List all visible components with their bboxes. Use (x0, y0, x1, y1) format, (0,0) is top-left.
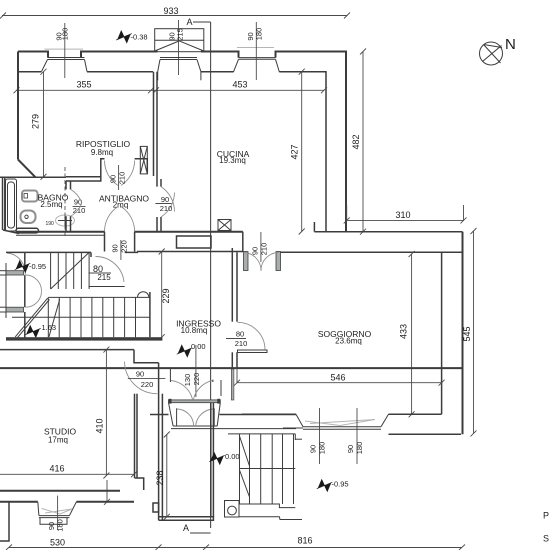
wall top inner face (18, 72, 326, 232)
wall band cucina south to soggiorno north (137, 222, 464, 252)
pill bagno south end (16, 228, 39, 233)
svg-text:-0.38: -0.38 (131, 33, 148, 42)
service stairs right of landing (228, 434, 302, 520)
wall west ripostiglio (17, 52, 19, 160)
wall ripostiglio south / antibagno north (36, 159, 148, 181)
building SW corner (0, 502, 9, 541)
wall diagonal to bagno bay (18, 160, 36, 178)
studio window bottom (38, 502, 77, 525)
dim 545 (471, 228, 477, 436)
svg-text:816: 816 (297, 536, 312, 546)
wall ripostiglio east (154, 72, 158, 179)
dim 229 (159, 249, 165, 341)
landing west wall (159, 363, 163, 521)
svg-text:2.5mq: 2.5mq (40, 200, 62, 209)
shaft with X cucina (218, 220, 231, 231)
svg-text:P: P (543, 511, 549, 521)
svg-text:0.00: 0.00 (225, 452, 240, 461)
svg-text:0.00: 0.00 (191, 342, 206, 351)
french door balcony (cucina) (158, 58, 201, 81)
stairwell right wall (149, 292, 151, 337)
sink bagno (22, 191, 38, 202)
main stair flight (12, 292, 150, 339)
svg-text:90: 90 (346, 445, 355, 453)
hatched pier 1 (6, 271, 24, 275)
svg-text:210: 210 (118, 172, 127, 185)
svg-text:1.63: 1.63 (42, 323, 57, 332)
spark 0.00 ingresso (178, 344, 192, 358)
landing east wall (211, 403, 214, 517)
dim 410 (103, 347, 110, 505)
dims 90/180 soggiorno windows (319, 408, 321, 464)
svg-text:90: 90 (251, 247, 260, 255)
svg-text:90: 90 (111, 244, 120, 252)
door soggiorno-ingresso leaf (238, 350, 268, 353)
svg-text:90: 90 (309, 445, 318, 453)
svg-text:180: 180 (355, 442, 364, 455)
door cucina-soggiorno jambs gray (244, 252, 249, 271)
svg-text:453: 453 (232, 80, 247, 90)
bathtub (6, 179, 17, 231)
stair hall top wall (6, 232, 138, 257)
door arcs hall west (7, 253, 42, 307)
svg-text:220: 220 (192, 373, 201, 386)
wall ingresso east (232, 248, 237, 368)
svg-text:190: 190 (46, 221, 55, 227)
wall soggiorno east (441, 252, 443, 414)
wall bagno east (66, 181, 71, 232)
dim 80/210 soggiorno door (226, 338, 246, 340)
column box with circle (225, 501, 240, 518)
svg-text:427: 427 (290, 144, 300, 159)
entrance porch trapezoid (169, 403, 297, 429)
wall step at 134 (134, 350, 159, 363)
spark -0.95 bottom (318, 479, 332, 493)
dashed line bagno (64, 167, 66, 237)
svg-text:545: 545 (462, 326, 472, 341)
antibagno east door arcs (161, 187, 175, 217)
svg-text:355: 355 (76, 80, 91, 90)
long wall y368 (0, 367, 463, 369)
svg-text:180: 180 (61, 28, 70, 41)
balcony box top (155, 29, 204, 52)
svg-text:130: 130 (183, 374, 192, 387)
svg-text:90: 90 (109, 175, 118, 183)
svg-text:416: 416 (49, 464, 64, 474)
dim 279 vertical (41, 69, 47, 180)
wall bagno/antibagno south (16, 231, 243, 233)
svg-text:546: 546 (330, 373, 345, 383)
spark 0.00 landing (210, 452, 224, 466)
studio south wall (0, 491, 134, 502)
left edge stubs (0, 271, 6, 312)
dim 546 (234, 368, 445, 386)
svg-text:279: 279 (31, 114, 41, 129)
north compass (480, 42, 503, 65)
bidet bagno (21, 211, 36, 224)
door studio corridor arc (125, 362, 158, 394)
dim 90/210 antibagno east door (155, 203, 171, 205)
svg-text:19.3mq: 19.3mq (219, 156, 246, 165)
dim 90/210 bagno door (73, 206, 86, 208)
entrance outer leaves (177, 408, 215, 426)
svg-text:210: 210 (260, 243, 269, 256)
dim 90/180 window W3 (255, 22, 257, 80)
wall antibagno east piers (157, 179, 161, 232)
svg-text:23.6mq: 23.6mq (335, 337, 362, 346)
svg-text:229: 229 (161, 288, 171, 303)
antibagno north door arcs (105, 161, 135, 186)
stair hall left wall (5, 263, 7, 318)
dim 90/220 rotated hall door (120, 240, 122, 260)
svg-text:-0.95: -0.95 (29, 262, 46, 271)
stair hall west wall piers (24, 252, 26, 338)
svg-text:482: 482 (351, 134, 361, 149)
window W3 cucina top (233, 48, 279, 73)
bagno bay west wall (0, 177, 36, 233)
window W1 ripostiglio top (42, 49, 88, 71)
antibagno south door arcs (104, 207, 134, 232)
hatched pier 2 (6, 307, 24, 312)
svg-text:90: 90 (136, 370, 144, 379)
dim 933 top (0, 13, 350, 19)
spark -0.95 stair hall (16, 260, 30, 274)
door cucina-soggiorno arcs (244, 253, 279, 272)
wall band below stairs (6, 337, 162, 340)
svg-text:530: 530 (50, 538, 65, 548)
wall y349.6 studio top (0, 349, 134, 351)
atrium south edge (150, 414, 296, 416)
svg-text:17mq: 17mq (48, 436, 68, 445)
dim 90/210 cucina-soggiorno door (260, 232, 262, 262)
svg-text:180: 180 (255, 28, 264, 41)
svg-text:A: A (183, 523, 189, 533)
dim 90/220 studio corridor door (128, 377, 166, 379)
dim 90/215 balcony door (178, 20, 180, 75)
dim 310 (344, 205, 467, 223)
door 80/215 hall arc (96, 256, 125, 282)
dim 90/180 window W1 (64, 23, 66, 78)
svg-text:210: 210 (160, 204, 173, 213)
entrance threshold (169, 400, 221, 403)
svg-text:410: 410 (95, 418, 105, 433)
door soggiorno-ingresso arc (238, 322, 266, 350)
svg-text:310: 310 (395, 210, 410, 220)
spark -0.38 (117, 30, 131, 44)
dim 130/220 entrance door (195, 345, 197, 397)
svg-text:90: 90 (161, 195, 169, 204)
landing south wall (159, 517, 214, 520)
svg-text:10.8mq: 10.8mq (181, 326, 208, 335)
dim 355/453 line (14, 75, 328, 93)
dim 482 vertical (360, 49, 366, 235)
svg-text:433: 433 (399, 324, 409, 339)
svg-text:80: 80 (236, 330, 244, 339)
entrance double door inner arcs (170, 381, 213, 400)
soggiorno south wall outer (389, 433, 462, 435)
svg-text:933: 933 (163, 6, 178, 16)
svg-text:S: S (543, 534, 549, 544)
threshold atrium east passage (231, 369, 234, 400)
dim 530/816 bottom line (6, 545, 465, 550)
svg-text:238: 238 (155, 470, 165, 485)
svg-text:9.8mq: 9.8mq (91, 148, 113, 157)
svg-text:215: 215 (97, 273, 111, 282)
section line A-A (210, 22, 212, 528)
shaft with X ripostiglio corner (140, 146, 147, 174)
svg-text:180: 180 (318, 442, 327, 455)
svg-text:A: A (187, 17, 193, 27)
dim 433 (409, 251, 415, 417)
dim 90/210 antibagno north door (118, 165, 120, 190)
svg-text:N: N (505, 36, 516, 53)
svg-text:215: 215 (176, 28, 185, 41)
dim 427 vertical (299, 69, 305, 235)
dim 416 (0, 471, 137, 477)
soggiorno south window band (242, 413, 442, 415)
landing west notch (153, 503, 159, 512)
dim 90/180 studio window (57, 496, 59, 530)
studio east wall (135, 394, 144, 490)
wall top exterior outer face (18, 52, 346, 232)
dim 80/215 (89, 272, 112, 274)
svg-text:180: 180 (56, 519, 65, 532)
svg-text:210: 210 (235, 339, 248, 348)
upper stair flight (51, 252, 90, 289)
niche box ingresso north (177, 236, 212, 248)
wc ellipse with cross (56, 215, 75, 226)
bagno door arcs (71, 189, 82, 216)
spark 1.63 (26, 325, 40, 339)
svg-text:220: 220 (120, 240, 129, 253)
svg-text:220: 220 (141, 380, 154, 389)
svg-text:-0.95: -0.95 (332, 480, 349, 489)
dim 238 (164, 432, 170, 520)
